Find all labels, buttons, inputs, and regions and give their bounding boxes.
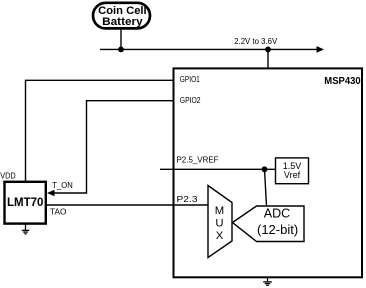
wire: GPIO1 to LMT70 VDD [26,80,174,182]
MSP430 U2 [174,68,363,277]
wire: Vref node down to ADC [265,169,267,206]
svg-text:U: U [215,218,223,230]
wire: rail down to MSP430 top [267,49,269,67]
wire: supply rail 2.2V to 3.6V [100,46,324,53]
wire: TAO to P2.3 / MUX input [46,204,208,206]
svg-text:GPIO2: GPIO2 [180,95,201,105]
wire: battery to supply rail [120,28,122,49]
Vref source: 1.5V Vref box [276,158,309,184]
ground: LMT70 [22,223,29,234]
svg-text:2.2V to 3.6V: 2.2V to 3.6V [234,36,277,46]
arrowhead: T_ON into LMT70 [47,190,55,196]
ADC (12-bit) [233,206,305,242]
battery B1: Coin Cell Battery [93,3,150,29]
svg-text:MSP430: MSP430 [324,76,361,87]
wire: P2.5_VREF pin stub to Vref [160,168,276,170]
svg-text:M: M [215,205,224,217]
svg-text:ADC: ADC [264,207,290,221]
svg-text:LMT70: LMT70 [7,197,43,209]
svg-text:(12-bit): (12-bit) [257,222,298,237]
svg-text:TAO: TAO [50,207,67,217]
MUX [208,186,232,258]
ground: MSP430 [263,277,272,285]
svg-text:P2.3: P2.3 [177,194,198,204]
svg-text:X: X [216,230,224,242]
svg-text:VDD: VDD [0,171,16,181]
junction: supply tap to MSP430 [265,47,271,53]
svg-text:GPIO1: GPIO1 [180,74,200,84]
svg-text:Battery: Battery [102,16,143,28]
svg-text:Vref: Vref [284,170,301,180]
svg-text:T_ON: T_ON [52,180,73,190]
wire: GPIO2 down to T_ON [51,101,173,193]
LMT70 U1 [5,182,46,224]
junction: Vref node [262,166,268,172]
junction: battery on rail [118,47,124,53]
svg-text:P2.5_VREF: P2.5_VREF [177,155,219,165]
